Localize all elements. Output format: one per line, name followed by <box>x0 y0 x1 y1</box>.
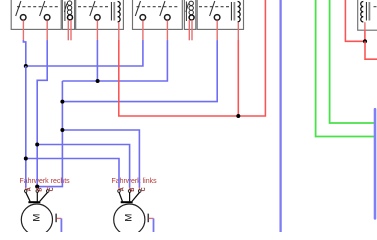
solenoid Y1 winding zigzag <box>118 2 121 22</box>
contact S1b slash <box>40 1 45 16</box>
svg-text:M: M <box>124 214 135 222</box>
coil K1 terminal ring <box>68 15 73 20</box>
wire blue contact S1a to node A (jog) <box>23 40 25 66</box>
coil K1 winding circles <box>67 1 71 5</box>
motor M2 terminal stub A <box>118 187 120 190</box>
svg-text:A: A <box>120 187 126 191</box>
contact S3b terminal circle <box>165 15 171 21</box>
contact S3a slash <box>135 1 140 16</box>
pin stubs coil K3 <box>188 20 190 41</box>
node dot y144.5 <box>35 143 39 147</box>
coil K3 armature line <box>185 2 187 22</box>
contact S1b terminal circle <box>44 15 50 21</box>
wire blue vertical x62.4 <box>37 81 62 187</box>
svg-text:B: B <box>38 188 44 192</box>
node dot y130 <box>60 128 64 132</box>
motor M1 terminal ring C <box>46 190 49 193</box>
wire blue bus y66 to contact S3a <box>26 40 143 66</box>
wire blue bus y101.6 to contact S4 <box>62 40 217 102</box>
contact S2 slash <box>90 1 95 16</box>
node dot y158.5 <box>24 157 28 161</box>
pin stub contact S4 <box>216 20 218 40</box>
motor M2 terminal ring B <box>128 190 131 193</box>
solenoid Y3 winding zigzag (right box, bumps left) <box>361 2 364 22</box>
wire blue motor M2 side down <box>153 218 155 232</box>
motor M2 side terminal bar <box>147 214 149 223</box>
wire green x315.6 <box>316 0 375 137</box>
solenoid Y1 core thick <box>113 2 115 21</box>
wire blue motor M1 side down <box>60 218 62 232</box>
pin stub contact S3a <box>142 20 144 40</box>
node dot red y116 <box>236 114 240 118</box>
motor M1 terminal stub B <box>36 188 38 190</box>
contact S1a terminal circle <box>20 15 26 21</box>
coil K3 winding circles <box>189 1 193 5</box>
motor M2 body circle <box>114 204 145 235</box>
wire blue bus y158.5 to motor2 A <box>26 159 119 188</box>
motor M2 terminal ring A <box>118 190 121 193</box>
node dot red y41.3 <box>363 39 367 43</box>
motor M1 terminal ring A <box>24 190 27 193</box>
motor M2 brush bar <box>121 201 133 203</box>
solenoid Y3 core thick <box>368 2 370 21</box>
relay box K1 coil outline <box>62 0 74 29</box>
solenoid Y2 core thin <box>230 2 232 21</box>
wire green x329.6 <box>330 0 375 123</box>
coil K1 slash <box>64 4 67 13</box>
solenoid Y2 core thick <box>233 2 235 21</box>
relay box K4 contact+solenoid outline <box>197 0 243 29</box>
dashed actuation line box6 <box>199 6 230 8</box>
dashed actuation line box4 <box>137 6 180 8</box>
relay box K2 contact+solenoid outline <box>76 0 124 29</box>
svg-text:A: A <box>26 187 32 191</box>
wire blue bus y130 to motor2 C <box>62 130 139 188</box>
dashed actuation line box3 <box>78 6 109 8</box>
svg-text:M: M <box>31 214 42 222</box>
pin stub solenoid Y3 <box>364 22 366 30</box>
coil K1 armature line <box>64 2 66 22</box>
node dot y81 <box>96 79 100 83</box>
relay box K1 contacts outline <box>11 0 61 29</box>
wire red top right to node <box>345 0 365 41</box>
wire red node down and off right edge <box>365 41 377 59</box>
node dot y66 <box>24 64 28 68</box>
motor M1 side stub <box>57 217 62 219</box>
pin stub solenoid Y1 <box>118 22 120 40</box>
motor M1 terminal ring B <box>36 190 39 193</box>
dashed fragment right box <box>374 6 377 8</box>
motor M2 terminal stub C <box>138 187 140 190</box>
motor M1 terminal stub C + link to bus <box>47 187 49 191</box>
motor M2 side stub <box>149 217 154 219</box>
relay box K3 coil outline <box>184 0 195 29</box>
wire red solenoid Y1 down bus y116 <box>119 0 266 116</box>
motor M2 terminal ring C <box>138 190 141 193</box>
contact S3b slash <box>160 1 165 16</box>
contact S4 terminal circle <box>214 15 220 21</box>
solenoid Y3 core thin <box>365 2 367 21</box>
motor M1 lead C <box>40 192 48 201</box>
contact S1a slash <box>16 1 21 16</box>
motor M2 lead A <box>119 192 122 201</box>
pin stub contact S1b <box>46 20 48 40</box>
coil K3 terminal ring <box>189 15 194 20</box>
wire red branch solenoid Y2 <box>237 40 239 116</box>
wire blue contact S1b jog to x37 <box>37 40 47 187</box>
motor M1 lead A <box>26 192 30 201</box>
wire blue contact S2 down to bus y81 <box>96 40 98 81</box>
solenoid Y1 core thin <box>110 2 112 21</box>
coil K3 slash <box>186 4 189 13</box>
motor M1 lead B <box>36 192 38 201</box>
motor M2 terminal stub B <box>129 187 131 190</box>
motor M1 side terminal bar <box>55 214 57 223</box>
contact S2 terminal circle <box>95 15 101 21</box>
relay box K3 contacts outline <box>133 0 183 29</box>
pin stubs coil K1 <box>67 20 69 41</box>
wire blue vertical x25.8 down to motor1 A <box>25 66 27 188</box>
relay box K5 outline (top right, cut off) <box>358 0 377 30</box>
pin stub contact S1a <box>22 20 24 40</box>
contact S3a terminal circle <box>140 15 146 21</box>
node dot y101.6 <box>60 100 64 104</box>
svg-text:C: C <box>49 187 55 191</box>
dashed actuation line box1 <box>17 6 58 8</box>
motor M1 body circle <box>21 204 52 235</box>
node dot y186.6 <box>35 185 39 189</box>
svg-text:B: B <box>130 188 136 192</box>
wire red solenoid Y3 down <box>364 30 366 41</box>
contact S4 slash <box>210 1 215 16</box>
wire blue bus y144.5 to motor2 B <box>37 145 129 188</box>
pin stub solenoid Y2 <box>237 22 239 40</box>
solenoid Y2 winding zigzag <box>238 2 241 22</box>
wire blue bus y81 <box>62 40 167 81</box>
wire thick blue x375 <box>374 109 377 218</box>
motor M2 lead C <box>132 192 140 201</box>
motor M1 brush bar <box>28 201 40 203</box>
motor M1 terminal stub A <box>25 187 27 190</box>
motor M2 lead B <box>129 192 131 201</box>
svg-text:C: C <box>141 187 147 191</box>
pin stub contact S3b <box>166 20 168 40</box>
wire long blue x280.6 <box>279 0 281 232</box>
pin stub contact S2 <box>96 20 98 40</box>
